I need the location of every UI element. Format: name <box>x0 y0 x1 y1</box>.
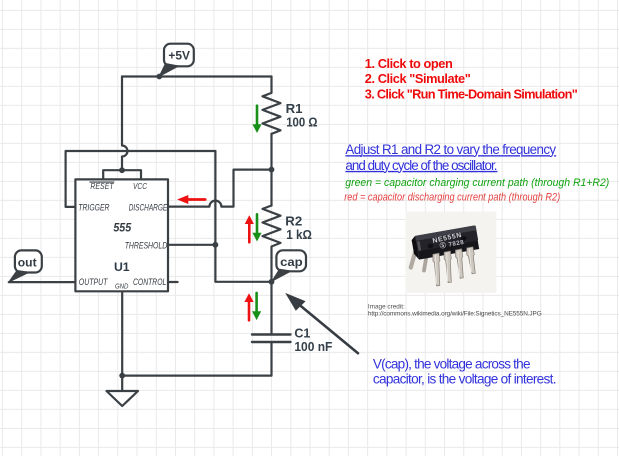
555 chip photo <box>406 212 497 293</box>
resistor R1 <box>263 77 281 134</box>
wire DISCHARGE to R1/R2 node (with hop) <box>168 170 272 207</box>
svg-text:TRIGGER: TRIGGER <box>78 203 110 213</box>
svg-text:3. Click "Run Time-Domain Simu: 3. Click "Run Time-Domain Simulation" <box>365 86 578 101</box>
wire RESET/VCC tie <box>103 170 141 179</box>
chip body in photo <box>411 225 480 260</box>
svg-text:R1: R1 <box>286 102 303 116</box>
svg-text:1 kΩ: 1 kΩ <box>286 228 312 242</box>
svg-text:GND: GND <box>115 284 129 291</box>
wire left vertical from +5V to RESET/VCC junction (with hop) <box>122 77 128 171</box>
svg-text:1. Click to open: 1. Click to open <box>365 56 453 71</box>
node RESET/VCC junction <box>119 167 125 173</box>
arrow green down through R2 <box>252 214 261 241</box>
node +5V tap <box>156 74 162 80</box>
pointer arrow to cap node <box>285 293 358 353</box>
svg-text:100 Ω: 100 Ω <box>286 115 317 129</box>
arrow green down at capacitor <box>252 293 261 320</box>
arrow green charging current through R1 <box>252 106 261 133</box>
front pins of chip photo <box>433 247 476 286</box>
IC U1 555 timer <box>75 179 168 291</box>
svg-text:CONTROL: CONTROL <box>133 277 166 287</box>
svg-text:green = capacitor charging cur: green = capacitor charging current path … <box>345 177 609 189</box>
resistor R2 <box>263 206 281 282</box>
svg-text:cap: cap <box>280 255 303 269</box>
node cap <box>269 279 275 285</box>
wire CONTROL stub <box>168 281 178 283</box>
wire R1 to R2 <box>270 134 272 206</box>
svg-text:RESET: RESET <box>90 182 114 191</box>
svg-text:VCC: VCC <box>133 182 147 191</box>
arrow red up at capacitor <box>244 293 253 320</box>
svg-text:red = capacitor discharging cu: red = capacitor discharging current path… <box>344 191 560 203</box>
node +5V label bubble <box>159 44 194 77</box>
svg-text:V(cap), the voltage across the: V(cap), the voltage across the <box>373 356 531 371</box>
svg-text:R2: R2 <box>285 215 302 229</box>
svg-text:THRESHOLD: THRESHOLD <box>125 241 168 251</box>
pin highlights <box>435 249 471 284</box>
wire vertical x=215.4 down to cap node row <box>215 151 271 282</box>
svg-text:+5V: +5V <box>168 49 190 63</box>
svg-text:capacitor, is the voltage of i: capacitor, is the voltage of interest. <box>373 371 557 386</box>
svg-text:2. Click "Simulate": 2. Click "Simulate" <box>365 71 471 86</box>
wire trigger-threshold tie (horizontal y=151) <box>66 151 216 207</box>
node R1-R2-DISCHARGE junction <box>269 167 275 173</box>
svg-text:C1: C1 <box>294 327 310 341</box>
red instruction text <box>365 56 578 101</box>
svg-text:100 nF: 100 nF <box>294 340 332 354</box>
wire OUTPUT to out bubble <box>9 281 76 283</box>
V(cap) blue note <box>373 356 557 386</box>
svg-text:OUTPUT: OUTPUT <box>79 277 108 287</box>
node THRESHOLD junction <box>213 242 219 248</box>
wire R2 bottom to C1 <box>270 282 272 335</box>
node ground junction <box>119 373 125 379</box>
image credit text <box>368 304 542 318</box>
svg-text:Adjust R1 and R2 to vary the f: Adjust R1 and R2 to vary the frequency <box>345 142 556 157</box>
wire bottom rail from C1 to ground <box>122 342 271 376</box>
wire +5V top rail <box>122 75 272 77</box>
arrow red discharge into DISCHARGE pin <box>177 195 205 204</box>
ground <box>121 376 123 391</box>
wire GND down from 555 <box>121 291 123 375</box>
capacitor C1 <box>252 335 291 343</box>
svg-text:and duty cycle of the oscillat: and duty cycle of the oscillator. <box>345 158 497 173</box>
svg-text:DISCHARGE: DISCHARGE <box>129 203 168 213</box>
svg-text:U1: U1 <box>114 260 130 274</box>
wire THRESHOLD pin <box>168 244 215 246</box>
back pins of chip photo <box>411 249 416 268</box>
blue adjust note <box>345 142 556 173</box>
node cap label bubble <box>272 250 306 281</box>
node out label bubble <box>9 250 42 282</box>
svg-text:http://commons.wikimedia.org/w: http://commons.wikimedia.org/wiki/File:S… <box>368 311 542 318</box>
svg-text:out: out <box>18 256 37 270</box>
svg-text:555: 555 <box>113 221 131 235</box>
arrow red up through R2 <box>245 215 254 242</box>
